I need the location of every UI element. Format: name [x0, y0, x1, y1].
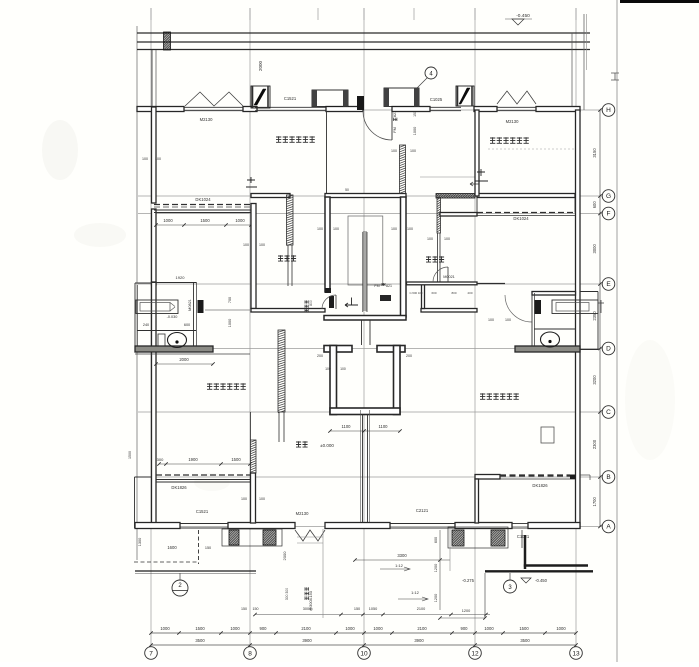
svg-text:G: G [606, 193, 611, 200]
svg-text:H: H [606, 107, 611, 114]
svg-text:C1021: C1021 [517, 534, 530, 539]
svg-text:200: 200 [317, 354, 323, 358]
svg-text:150: 150 [241, 607, 247, 611]
svg-text:1500: 1500 [200, 218, 210, 223]
svg-text:1100: 1100 [341, 424, 351, 429]
svg-text:900: 900 [461, 626, 469, 631]
svg-text:600: 600 [431, 291, 436, 295]
svg-text:FM: FM [393, 127, 397, 132]
svg-text:100: 100 [155, 157, 161, 161]
svg-text:1500: 1500 [195, 626, 205, 631]
svg-text:1000: 1000 [373, 626, 383, 631]
svg-text:1200: 1200 [434, 564, 438, 572]
svg-text:200: 200 [467, 291, 472, 295]
svg-text:DK1024: DK1024 [195, 197, 211, 202]
svg-text:M2130: M2130 [200, 117, 213, 122]
svg-text:150: 150 [253, 607, 259, 611]
svg-text:1500: 1500 [128, 451, 132, 459]
svg-text:1500: 1500 [231, 457, 241, 462]
svg-text:100: 100 [241, 497, 247, 501]
svg-text:2000: 2000 [179, 357, 189, 362]
svg-text:D: D [606, 346, 611, 353]
svg-text:200: 200 [406, 354, 412, 358]
svg-text:3900: 3900 [414, 638, 424, 643]
svg-text:-0.030: -0.030 [167, 315, 178, 319]
svg-text:3900: 3900 [302, 638, 312, 643]
svg-text:1000: 1000 [345, 626, 355, 631]
svg-text:100: 100 [317, 227, 323, 231]
svg-text:600: 600 [184, 323, 190, 327]
svg-text:1100: 1100 [378, 424, 388, 429]
svg-text:3150: 3150 [592, 148, 597, 158]
svg-text:100: 100 [407, 227, 413, 231]
svg-text:M2130: M2130 [296, 511, 309, 516]
svg-text:900: 900 [260, 626, 268, 631]
svg-text:@300X150: @300X150 [308, 590, 313, 611]
svg-text:1000: 1000 [230, 626, 240, 631]
svg-text:100: 100 [340, 367, 346, 371]
svg-text:800: 800 [309, 300, 313, 306]
svg-text:3500: 3500 [195, 638, 205, 643]
svg-text:1000: 1000 [556, 626, 566, 631]
svg-text:100: 100 [427, 237, 433, 241]
svg-text:10: 10 [360, 650, 368, 657]
svg-text:-0.275: -0.275 [462, 578, 475, 583]
svg-text:1:12: 1:12 [395, 563, 404, 568]
svg-text:100: 100 [488, 318, 494, 322]
svg-text:50: 50 [345, 188, 349, 192]
svg-text:100: 100 [325, 367, 331, 371]
svg-text:1000: 1000 [228, 319, 232, 327]
svg-text:±0.000: ±0.000 [320, 443, 334, 448]
svg-text:1000: 1000 [413, 127, 417, 135]
svg-text:2100: 2100 [417, 607, 425, 611]
svg-text:1:12: 1:12 [411, 590, 420, 595]
svg-text:1900: 1900 [188, 457, 198, 462]
svg-text:2000: 2000 [282, 551, 287, 561]
svg-text:600: 600 [434, 537, 438, 543]
svg-text:C1025: C1025 [430, 97, 443, 102]
svg-text:100: 100 [259, 243, 265, 247]
svg-text:3200: 3200 [592, 375, 597, 385]
svg-text:2300: 2300 [592, 439, 597, 449]
svg-text:12: 12 [471, 650, 479, 657]
svg-text:DK1024: DK1024 [513, 216, 529, 221]
svg-text:8: 8 [248, 650, 252, 657]
svg-text:150: 150 [205, 546, 211, 550]
svg-text:E: E [606, 281, 611, 288]
svg-text:1000: 1000 [484, 626, 494, 631]
svg-text:M2130: M2130 [506, 119, 519, 124]
svg-text:100: 100 [142, 157, 148, 161]
svg-text:800: 800 [451, 291, 456, 295]
svg-text:100: 100 [391, 227, 397, 231]
svg-text:13: 13 [572, 650, 580, 657]
svg-text:300 300: 300 300 [285, 588, 289, 600]
svg-text:100: 100 [243, 243, 249, 247]
svg-text:1000: 1000 [235, 218, 245, 223]
svg-text:1000: 1000 [163, 218, 173, 223]
svg-text:150: 150 [354, 607, 360, 611]
svg-text:C1521: C1521 [284, 96, 297, 101]
svg-text:100: 100 [333, 227, 339, 231]
svg-text:M0021: M0021 [443, 275, 455, 279]
svg-text:C2121: C2121 [416, 508, 429, 513]
svg-text:1920: 1920 [176, 275, 186, 280]
svg-text:300: 300 [157, 457, 164, 462]
svg-text:A: A [606, 524, 611, 531]
svg-text:1500: 1500 [519, 626, 529, 631]
svg-text:1200: 1200 [434, 594, 438, 602]
svg-text:-0.450: -0.450 [535, 578, 548, 583]
svg-text:1000: 1000 [160, 626, 170, 631]
svg-text:2100: 2100 [417, 626, 427, 631]
svg-text:C1521: C1521 [196, 509, 209, 514]
svg-text:2100: 2100 [301, 626, 311, 631]
svg-text:B: B [606, 474, 610, 481]
svg-text:DK1826: DK1826 [171, 485, 187, 490]
svg-text:100: 100 [444, 237, 450, 241]
svg-text:700: 700 [228, 297, 232, 303]
svg-text:1050: 1050 [369, 607, 377, 611]
svg-text:F: F [607, 211, 611, 218]
svg-text:3500: 3500 [520, 638, 530, 643]
svg-text:1300: 1300 [138, 538, 142, 546]
svg-text:2350: 2350 [592, 311, 597, 321]
svg-text:150: 150 [413, 111, 417, 117]
svg-text:1700: 1700 [592, 496, 597, 506]
svg-text:821: 821 [393, 111, 397, 117]
svg-text:100: 100 [391, 149, 397, 153]
svg-text:FM: FM [374, 284, 379, 288]
svg-text:-0.450: -0.450 [516, 13, 530, 19]
svg-text:DK1826: DK1826 [532, 483, 548, 488]
svg-text:240: 240 [143, 323, 149, 327]
svg-text:C: C [606, 409, 611, 416]
svg-text:3300: 3300 [397, 553, 407, 558]
svg-text:M0821: M0821 [188, 299, 192, 311]
svg-text:2000: 2000 [258, 60, 263, 71]
svg-text:821: 821 [386, 284, 392, 288]
svg-text:3000: 3000 [592, 243, 597, 253]
svg-text:100: 100 [410, 149, 416, 153]
svg-text:C-500 100: C-500 100 [409, 291, 423, 295]
svg-text:1200: 1200 [462, 609, 470, 613]
svg-text:1600: 1600 [167, 545, 177, 550]
svg-text:7: 7 [149, 650, 153, 657]
svg-text:100: 100 [259, 497, 265, 501]
svg-text:100: 100 [505, 318, 511, 322]
svg-text:600: 600 [592, 201, 597, 209]
